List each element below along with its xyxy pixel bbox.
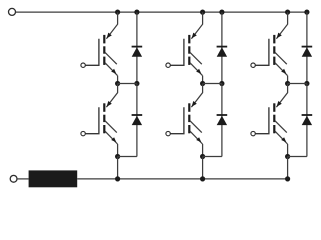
node EB (junction dot)	[200, 154, 205, 159]
wire: emitter lead of Q6	[287, 144, 289, 157]
gate terminal of Q5	[251, 63, 255, 67]
wire: collector lead of Q4	[191, 84, 202, 108]
wire: emitter junction of Q6 to anode of D6	[288, 156, 307, 158]
wire: cathode/anode line of D1	[136, 12, 138, 83]
node C1 (junction dot)	[285, 81, 290, 86]
wire: emitter junction of Q6 down to negative rail	[287, 157, 289, 179]
wire: collector lead of Q3	[191, 12, 202, 39]
wire: cathode/anode line of D5	[306, 12, 308, 83]
gate terminal of Q2	[81, 131, 85, 135]
wire: emitter junction of Q2 down to negative rail	[117, 157, 119, 179]
terminal N (DC- input)	[10, 175, 17, 182]
wire: collector lead of Q2	[106, 84, 117, 108]
gate terminal of Q3	[166, 63, 170, 67]
wire: collector lead of Q6	[276, 84, 287, 108]
wire: emitter junction of Q4 to anode of D4	[203, 156, 222, 158]
wire: cathode/anode line of D3	[221, 12, 223, 83]
wire: cathode/anode line of D6	[306, 84, 308, 157]
node N1 (junction dot)	[115, 176, 120, 181]
transistor Q1 (IGBT)	[85, 33, 117, 76]
diode D1 (freewheeling)	[132, 47, 143, 57]
transistor Q5 (IGBT)	[255, 33, 287, 76]
node P2a (junction dot)	[200, 10, 205, 15]
node N3 (junction dot)	[285, 176, 290, 181]
diode D2 (freewheeling)	[132, 115, 143, 125]
wire: collector lead of Q5	[276, 12, 287, 39]
node P2b (junction dot)	[219, 10, 224, 15]
node EA (junction dot)	[115, 154, 120, 159]
transistor Q6 (IGBT)	[255, 101, 287, 144]
node A2 (junction dot)	[134, 81, 139, 86]
wire: emitter junction of Q2 to anode of D2	[118, 156, 137, 158]
transistor Q4 (IGBT)	[170, 101, 202, 144]
diode D5 (freewheeling)	[302, 47, 313, 57]
node N2 (junction dot)	[200, 176, 205, 181]
wire: emitter lead of Q2	[117, 144, 119, 157]
wire: phase node C connecting Q5 emitter to D5 anode	[288, 83, 307, 85]
diode D3 (freewheeling)	[217, 47, 228, 57]
diode D4 (freewheeling)	[217, 115, 228, 125]
resistor R1 (shunt, solid body)	[29, 170, 78, 187]
wire: emitter lead of Q4	[202, 144, 204, 157]
wire: collector lead of Q1	[106, 12, 117, 39]
wire: phase node A connecting Q1 emitter to D1 anode	[118, 83, 137, 85]
diode D6 (freewheeling)	[302, 115, 313, 125]
gate terminal of Q4	[166, 131, 170, 135]
transistor Q3 (IGBT)	[170, 33, 202, 76]
wire: positive DC bus rail	[16, 11, 307, 13]
wire: emitter lead of Q3	[202, 76, 204, 84]
gate terminal of Q6	[251, 131, 255, 135]
wire: negative DC bus rail	[77, 178, 287, 180]
wire: emitter lead of Q5	[287, 76, 289, 84]
wire: emitter junction of Q4 down to negative rail	[202, 157, 204, 179]
node C2 (junction dot)	[304, 81, 309, 86]
node A1 (junction dot)	[115, 81, 120, 86]
node EC (junction dot)	[285, 154, 290, 159]
gate terminal of Q1	[81, 63, 85, 67]
terminal P (DC+ input)	[9, 8, 16, 15]
transistor Q2 (IGBT)	[85, 101, 117, 144]
wire: N terminal to shunt resistor	[17, 178, 29, 180]
node B2 (junction dot)	[219, 81, 224, 86]
node P1b (junction dot)	[134, 10, 139, 15]
wire: phase node B connecting Q3 emitter to D3 anode	[203, 83, 222, 85]
node P3a (junction dot)	[285, 10, 290, 15]
node P1a (junction dot)	[115, 10, 120, 15]
wire: emitter lead of Q1	[117, 76, 119, 84]
wire: cathode/anode line of D2	[136, 84, 138, 157]
wire: cathode/anode line of D4	[221, 84, 223, 157]
node B1 (junction dot)	[200, 81, 205, 86]
node P3b (junction dot)	[304, 10, 309, 15]
